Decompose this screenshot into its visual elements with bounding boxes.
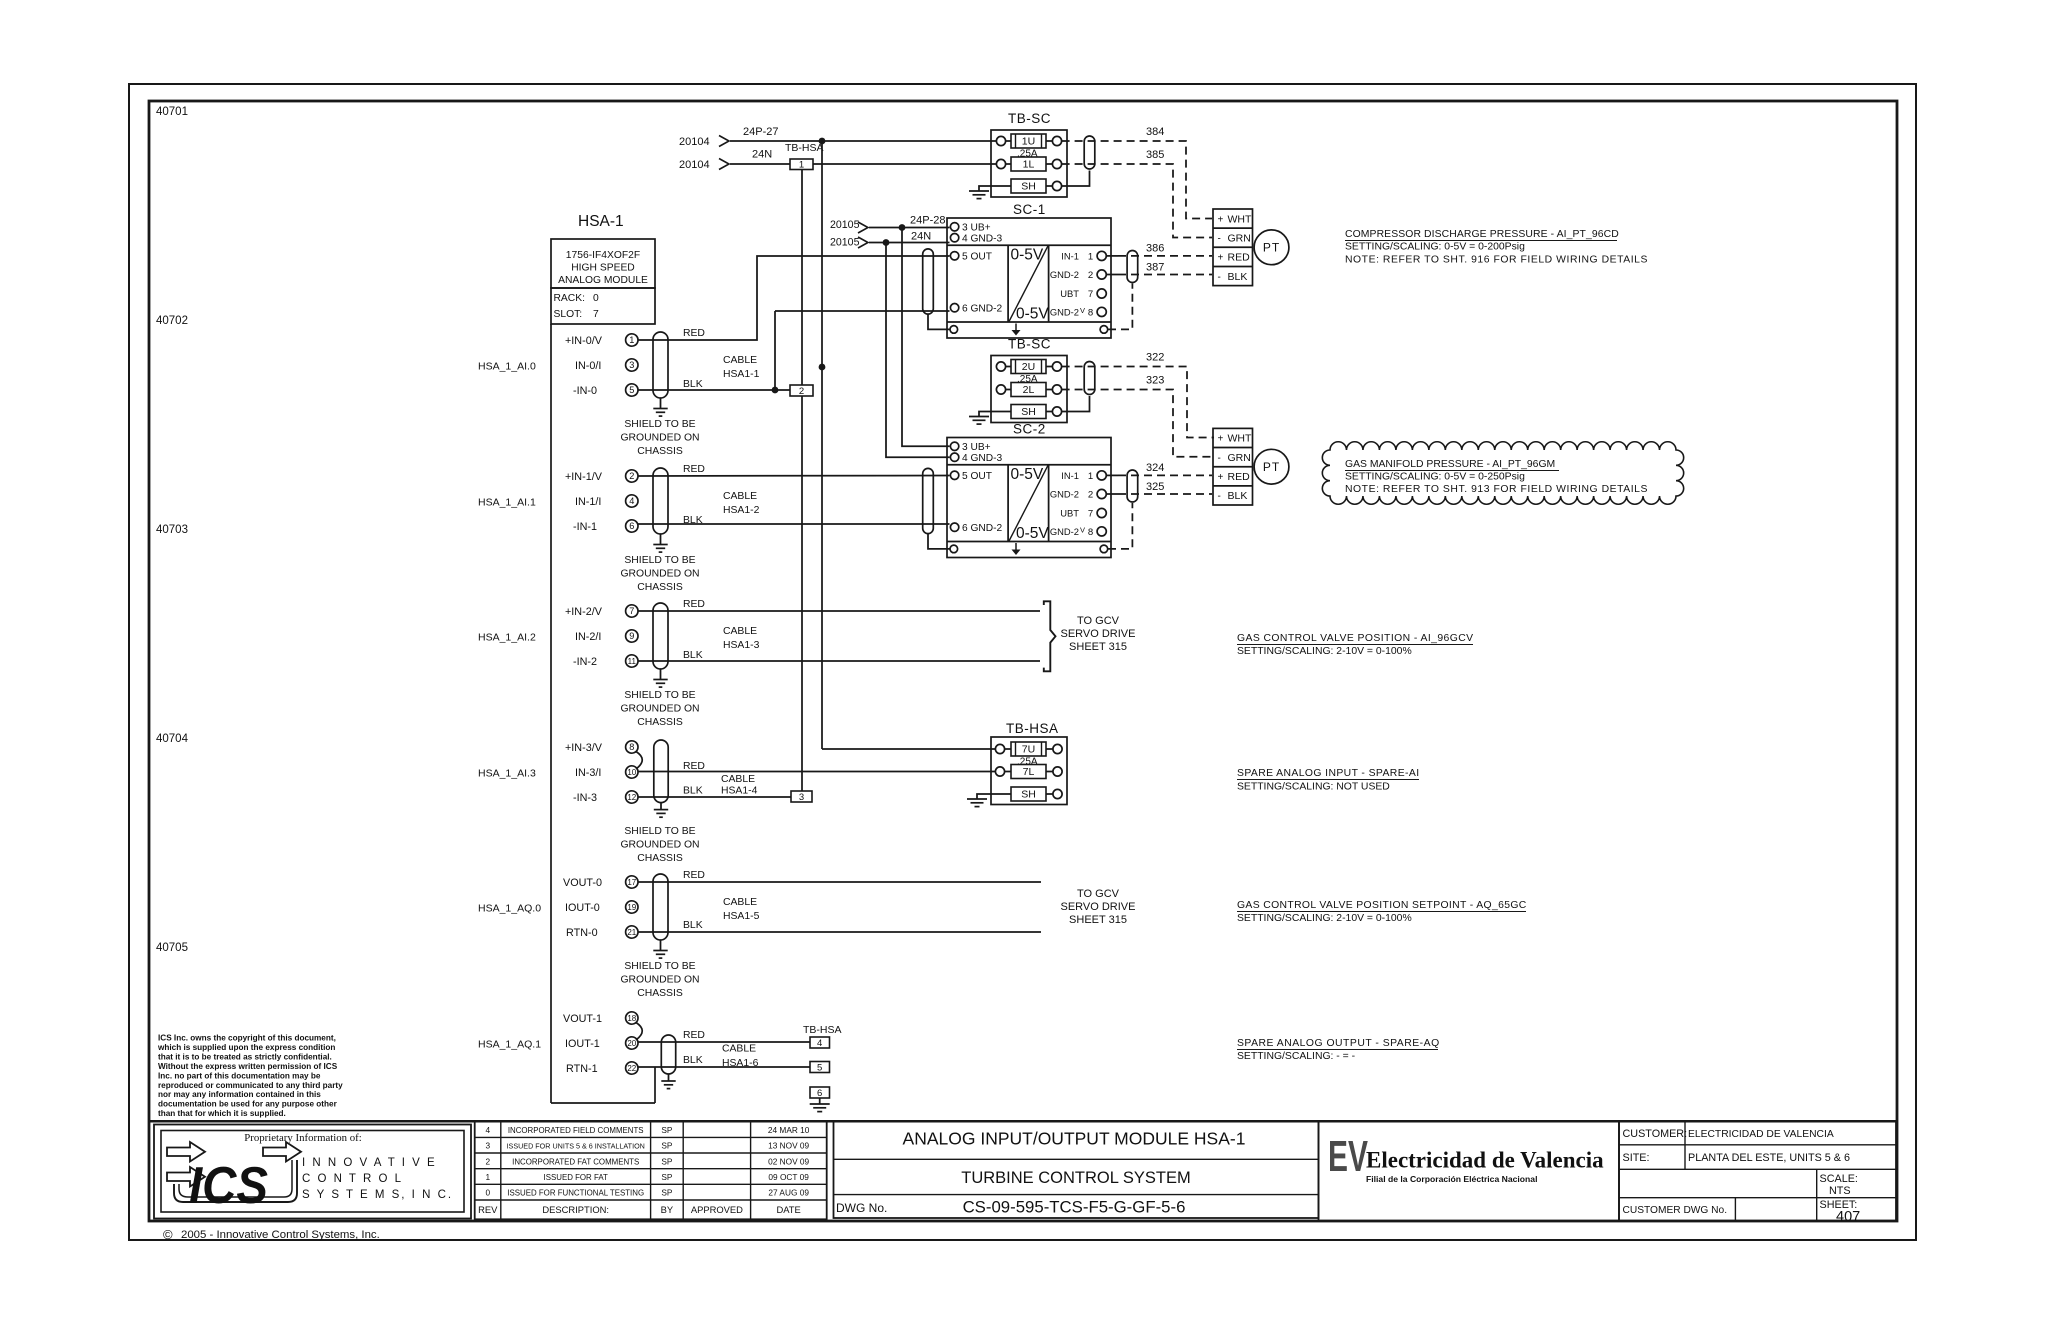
- TB-HSA 7L right terminal: [1053, 767, 1062, 776]
- pin 9 circle: [626, 630, 638, 642]
- svg-text:HSA_1_AQ.1: HSA_1_AQ.1: [478, 1039, 541, 1051]
- svg-text:UBT: UBT: [1060, 508, 1079, 519]
- svg-text:1: 1: [1088, 471, 1093, 482]
- pin 22 circle: [626, 1062, 638, 1074]
- svg-text:SERVO DRIVE: SERVO DRIVE: [1061, 628, 1136, 640]
- svg-text:ELECTRICIDAD DE VALENCIA: ELECTRICIDAD DE VALENCIA: [1688, 1129, 1834, 1140]
- arrow 20105 a: [858, 222, 868, 233]
- svg-text:CHASSIS: CHASSIS: [637, 582, 683, 593]
- svg-text:HSA-1: HSA-1: [578, 213, 624, 230]
- shield drain stem HSA1-6: [668, 1074, 670, 1081]
- svg-text:-: -: [1218, 272, 1221, 283]
- svg-text:reproduced or communicated to: reproduced or communicated to any third …: [158, 1081, 343, 1090]
- ICS logo arrow 1: [167, 1142, 205, 1162]
- svg-text:PLANTA DEL ESTE, UNITS 5: PLANTA DEL ESTE, UNITS 5 & 6: [1688, 1152, 1850, 1164]
- svg-text:TB-HSA: TB-HSA: [1006, 721, 1059, 736]
- svg-text:GROUNDED ON: GROUNDED ON: [620, 433, 699, 444]
- signal conditioner SC-1 pin 8 GND-2 terminal: [1097, 307, 1106, 316]
- customer vline label: [1684, 1121, 1686, 1169]
- svg-text:RED: RED: [683, 464, 705, 475]
- signal conditioner SC-2 ground arrow: [1015, 543, 1017, 551]
- svg-text:IN-3/I: IN-3/I: [575, 767, 601, 779]
- svg-text:documentation be used for any: documentation be used for any purpose ot…: [158, 1100, 338, 1109]
- pressure transmitter PT1 terminal block divider 3: [1213, 265, 1253, 267]
- shield drain stem HSA1-1: [660, 398, 662, 409]
- svg-text:CS-09-595-TCS-F5-G-GF-5-6: CS-09-595-TCS-F5-G-GF-5-6: [963, 1198, 1186, 1217]
- terminal block TB-SC upper fuse 1U link: [1006, 140, 1011, 142]
- border frame inner: [149, 101, 1897, 1221]
- wire 387 dashed: [1118, 274, 1212, 276]
- svg-text:7L: 7L: [1023, 766, 1035, 778]
- svg-text:COMPRESSOR DISCHARGE PRESSUR: COMPRESSOR DISCHARGE PRESSURE - AI_PT_96…: [1345, 229, 1619, 240]
- svg-text:5: 5: [817, 1063, 822, 1074]
- wire 24N top: [730, 163, 997, 165]
- terminal block TB-SC lower fuse 2U left terminal: [996, 362, 1005, 371]
- SC-1 shield return dashed: [1108, 284, 1132, 330]
- svg-text:GAS CONTROL VALVE POSITION: GAS CONTROL VALVE POSITION SETPOINT - AQ…: [1237, 900, 1527, 911]
- terminal block TB-SC upper 1L right terminal: [1052, 159, 1061, 168]
- TB-HSA SH right terminal: [1053, 789, 1062, 798]
- revision table hline 1: [475, 1136, 827, 1138]
- svg-text:BLK: BLK: [683, 379, 703, 390]
- signal conditioner SC-2 converter box: [1007, 465, 1009, 542]
- arrow 20104 a: [719, 136, 729, 147]
- svg-text:BLK: BLK: [683, 650, 703, 661]
- svg-text:40702: 40702: [156, 315, 188, 327]
- cable shield oval HSA1-2: [653, 468, 668, 534]
- signal conditioner SC-1 pin 7 UBT terminal: [1097, 289, 1106, 298]
- svg-text:RED: RED: [683, 1030, 705, 1041]
- TB-HSA fuse 7U link: [1005, 748, 1011, 750]
- pin 4 circle: [626, 495, 638, 507]
- svg-text:SHEET 315: SHEET 315: [1069, 641, 1127, 653]
- revision table hline 5: [475, 1199, 827, 1201]
- svg-text:SP: SP: [661, 1125, 673, 1135]
- wire +IN-0/V RED to SC-1 OUT: [638, 256, 950, 340]
- svg-text:GAS CONTROL VALVE POSITION: GAS CONTROL VALVE POSITION - AI_96GCV: [1237, 633, 1474, 644]
- svg-text:1: 1: [485, 1172, 490, 1182]
- signal conditioner SC-1 pin 4 GND-3 terminal: [950, 234, 958, 242]
- wire 325 dashed: [1118, 493, 1212, 495]
- svg-text:GROUNDED ON: GROUNDED ON: [620, 840, 699, 851]
- signal conditioner SC-2 pin 6 GND-2 terminal: [950, 523, 958, 531]
- module HSA-1 left edge: [550, 324, 552, 1103]
- svg-text:EV: EV: [1328, 1131, 1368, 1180]
- signal conditioner SC-1 shield terminal right: [1100, 326, 1108, 334]
- svg-text:24 MAR 10: 24 MAR 10: [768, 1125, 810, 1135]
- signal conditioner SC-1 converter box: [1007, 245, 1009, 322]
- svg-text:6 GND-2: 6 GND-2: [962, 303, 1003, 314]
- svg-text:IN-2/I: IN-2/I: [575, 631, 601, 643]
- customer table box: [1619, 1121, 1896, 1221]
- svg-text:CUSTOMER:: CUSTOMER:: [1623, 1128, 1688, 1140]
- terminal block TB-SC upper fuse 1U body: [1011, 134, 1046, 148]
- svg-text:IN-1/I: IN-1/I: [575, 496, 601, 508]
- svg-text:BY: BY: [661, 1204, 674, 1215]
- ICS logo arrow 2: [167, 1167, 205, 1187]
- note gcv setpoint underline: [1237, 911, 1526, 913]
- customer vline scale: [1816, 1169, 1818, 1221]
- signal conditioner SC-2 bottom strip divider: [947, 541, 1111, 543]
- pin 8 circle: [626, 741, 638, 753]
- svg-text:SH: SH: [1021, 181, 1036, 193]
- svg-text:18: 18: [627, 1014, 636, 1023]
- pressure transmitter PT2 terminal block PT transmitter: [1254, 449, 1289, 484]
- svg-text:NOTE: REFER TO SHT. 913 F: NOTE: REFER TO SHT. 913 FOR FIELD WIRING…: [1345, 484, 1648, 495]
- signal conditioner SC-1 ground arrow: [1015, 324, 1017, 332]
- shield ground HSA1-5: [653, 950, 667, 952]
- bus 24P-28 to SC-2: [902, 228, 950, 447]
- svg-text:4: 4: [629, 496, 634, 506]
- svg-text:SETTING/SCALING: 0-5V = 0-2: SETTING/SCALING: 0-5V = 0-250Psig: [1345, 472, 1525, 483]
- svg-text:ISSUED FOR FUNCTIONAL TESTI: ISSUED FOR FUNCTIONAL TESTING: [507, 1189, 644, 1198]
- TB-HSA terminal 7L body: [1011, 765, 1046, 779]
- terminal block TB-SC upper SH ground wire: [979, 186, 1011, 191]
- signal conditioner SC-1 pin 6 GND-2 terminal: [950, 304, 958, 312]
- TB-HSA fuse 7U left terminal: [995, 744, 1004, 753]
- signal conditioner SC-2 pin 7 UBT terminal: [1097, 508, 1106, 517]
- pin 10 circle: [626, 766, 638, 778]
- EV logo box: [1319, 1121, 1620, 1221]
- svg-text:RED: RED: [683, 761, 705, 772]
- svg-text:SHIELD TO BE: SHIELD TO BE: [624, 555, 695, 566]
- svg-text:SETTING/SCALING: 2-10V = 0-: SETTING/SCALING: 2-10V = 0-100%: [1237, 913, 1412, 924]
- svg-text:4: 4: [817, 1038, 822, 1049]
- svg-text:0-5V: 0-5V: [1016, 306, 1049, 323]
- terminal 6 ground: [810, 1103, 830, 1105]
- svg-text:IOUT-1: IOUT-1: [565, 1038, 600, 1050]
- pin 3 circle: [626, 359, 638, 371]
- SC-1 shield drain: [928, 314, 950, 329]
- svg-text:7: 7: [1088, 509, 1093, 520]
- terminal block TB-SC lower ground: [969, 416, 989, 418]
- svg-text:ANALOG MODULE: ANALOG MODULE: [558, 275, 648, 286]
- svg-text:22: 22: [627, 1064, 636, 1073]
- terminal block TB-SC upper SH right link: [1046, 185, 1052, 187]
- svg-text:SITE:: SITE:: [1623, 1152, 1650, 1164]
- svg-text:40704: 40704: [156, 733, 189, 745]
- svg-text:3: 3: [799, 792, 804, 803]
- svg-text:1L: 1L: [1023, 159, 1035, 171]
- terminal block TB-SC upper link 1L: [1006, 163, 1011, 165]
- svg-text:HSA1-3: HSA1-3: [723, 640, 760, 651]
- pin 21 circle: [626, 926, 638, 938]
- svg-text:24P-27: 24P-27: [743, 126, 778, 138]
- terminal block TB-SC lower SH right link: [1046, 411, 1052, 413]
- svg-text:7: 7: [629, 606, 634, 616]
- bus 24P vertical: [821, 141, 823, 749]
- signal conditioner SC-1 pin 2 GND-2 terminal: [1097, 270, 1106, 279]
- terminal TB-HSA 4 box: [810, 1037, 830, 1048]
- svg-text:Proprietary Information of:: Proprietary Information of:: [244, 1132, 362, 1144]
- revision table hline 2: [475, 1152, 827, 1154]
- svg-text:325: 325: [1146, 481, 1164, 493]
- ICS logo arrow 3: [263, 1142, 301, 1162]
- wire 24P-27: [730, 140, 997, 142]
- SC-2 shield return dashed: [1108, 503, 1132, 549]
- svg-text:24N: 24N: [752, 149, 772, 161]
- pressure transmitter PT2 terminal block box: [1213, 428, 1253, 505]
- svg-text:385: 385: [1146, 149, 1164, 161]
- svg-text:TB-HSA: TB-HSA: [785, 142, 824, 154]
- signal conditioner SC-2 pin 4 GND-3 terminal: [950, 453, 958, 461]
- revision table vline 3: [682, 1121, 684, 1219]
- signal conditioner SC-2 pin 1 IN-1 terminal: [1097, 471, 1106, 480]
- svg-text:I N N O V A T I V E: I N N O V A T I V E: [302, 1157, 437, 1169]
- svg-text:2: 2: [485, 1156, 490, 1166]
- pin 20 circle: [626, 1037, 638, 1049]
- svg-text:WHT: WHT: [1228, 433, 1252, 445]
- svg-text:Electricidad de Valencia: Electricidad de Valencia: [1366, 1148, 1604, 1173]
- shield drain stem HSA1-5: [660, 940, 662, 951]
- svg-text:GRN: GRN: [1228, 232, 1251, 244]
- terminal TB-HSA 3 box: [791, 791, 812, 802]
- signal conditioner SC-1 shield terminal left: [950, 326, 958, 334]
- svg-text:-: -: [1218, 491, 1221, 502]
- terminal block TB-SC upper fuse 1U right link: [1046, 140, 1052, 142]
- svg-text:-IN-0: -IN-0: [573, 385, 597, 397]
- svg-text:GND-2: GND-2: [1050, 306, 1079, 317]
- terminal block TB-SC lower box: [991, 356, 1067, 423]
- svg-text:4: 4: [485, 1125, 490, 1135]
- TB-HSA fuse 7U right link: [1046, 748, 1053, 750]
- shield drain stem HSA1-2: [660, 534, 662, 545]
- svg-text:SERVO DRIVE: SERVO DRIVE: [1061, 901, 1136, 913]
- signal conditioner SC-2 pin 8 GND-2 terminal: [1097, 527, 1106, 536]
- svg-text:6: 6: [629, 521, 634, 531]
- wire -IN-2 BLK to GCV: [638, 660, 1040, 662]
- svg-text:IN-1: IN-1: [1061, 250, 1079, 261]
- wire IN-3/I RED to TB-HSA 7L: [638, 771, 996, 773]
- svg-text:HSA_1_AI.2: HSA_1_AI.2: [478, 632, 536, 644]
- cable shield oval HSA1-5: [653, 874, 668, 940]
- svg-text:SC-2: SC-2: [1013, 422, 1046, 437]
- pin 2 circle: [626, 470, 638, 482]
- bus 24N to SC-2: [886, 243, 950, 458]
- terminal block TB-SC upper fuse 1U right terminal: [1052, 136, 1061, 145]
- svg-text:V: V: [1080, 306, 1085, 315]
- wire +IN-1/V RED to SC-2 OUT: [638, 475, 950, 478]
- terminal block TB-SC upper shield oval: [1084, 136, 1095, 169]
- svg-text:VOUT-0: VOUT-0: [563, 877, 602, 889]
- pin 1 circle: [626, 334, 638, 346]
- svg-text:2L: 2L: [1023, 384, 1035, 396]
- svg-text:SHIELD TO BE: SHIELD TO BE: [624, 826, 695, 837]
- svg-text:BLK: BLK: [1228, 271, 1248, 283]
- svg-text:20105: 20105: [830, 219, 860, 231]
- svg-text:PT: PT: [1263, 241, 1280, 255]
- svg-text:3 UB+: 3 UB+: [962, 223, 991, 234]
- svg-text:TO GCV: TO GCV: [1077, 888, 1120, 900]
- junction 24N branch: [883, 239, 890, 246]
- svg-text:RTN-0: RTN-0: [566, 927, 598, 939]
- svg-text:5 OUT: 5 OUT: [962, 252, 992, 263]
- ICS logo inner box: [161, 1131, 464, 1213]
- svg-text:2005 - Innovative Control: 2005 - Innovative Control Systems, Inc.: [181, 1229, 380, 1241]
- svg-text:DESCRIPTION:: DESCRIPTION:: [542, 1204, 609, 1215]
- svg-text:1: 1: [629, 335, 634, 345]
- wire -IN-3 BLK to TB-HSA 3: [638, 796, 791, 798]
- svg-text:CABLE: CABLE: [722, 1044, 756, 1055]
- svg-text:-IN-1: -IN-1: [573, 521, 597, 533]
- terminal TB-HSA 5 box: [810, 1062, 830, 1073]
- svg-text:NOTE: REFER TO SHT. 916 F: NOTE: REFER TO SHT. 916 FOR FIELD WIRING…: [1345, 255, 1648, 266]
- svg-text:GND-2: GND-2: [1050, 269, 1079, 280]
- TB-HSA 7L link: [1005, 771, 1011, 773]
- svg-text:SCALE:: SCALE:: [1820, 1173, 1858, 1185]
- svg-text:407: 407: [1836, 1209, 1860, 1225]
- svg-text:322: 322: [1146, 352, 1164, 364]
- svg-text:SP: SP: [661, 1141, 673, 1151]
- shield ground HSA1-2: [653, 544, 667, 546]
- svg-text:9: 9: [629, 631, 634, 641]
- svg-text:ICS: ICS: [189, 1157, 268, 1215]
- svg-text:nor may any information contai: nor may any information contained in thi…: [158, 1090, 321, 1099]
- svg-text:SETTING/SCALING: NOT USED: SETTING/SCALING: NOT USED: [1237, 782, 1390, 793]
- terminal block TB-SC upper box: [991, 130, 1067, 197]
- svg-text:RACK:: RACK:: [554, 293, 585, 304]
- svg-text:HSA1-5: HSA1-5: [723, 911, 760, 922]
- svg-text:-IN-2: -IN-2: [573, 656, 597, 668]
- svg-text:21: 21: [627, 928, 636, 937]
- revision table vline 4: [750, 1121, 752, 1219]
- pin 5 circle: [626, 384, 638, 396]
- TB-HSA ground: [967, 798, 987, 800]
- terminal block TB-SC upper SH body: [1011, 179, 1046, 193]
- wire 387 stub: [1106, 274, 1118, 276]
- wire 386 stub: [1106, 255, 1118, 257]
- junction 24P bus: [819, 138, 826, 145]
- svg-text:17: 17: [627, 878, 636, 887]
- svg-text:HSA1-1: HSA1-1: [723, 369, 760, 380]
- svg-text:SHIELD TO BE: SHIELD TO BE: [624, 961, 695, 972]
- svg-text:SH: SH: [1021, 789, 1036, 801]
- svg-text:REV: REV: [478, 1204, 498, 1215]
- svg-text:ISSUED FOR UNITS 5 & 6 I: ISSUED FOR UNITS 5 & 6 INSTALLATION: [507, 1142, 645, 1151]
- TB-HSA fuse 7U body: [1011, 742, 1046, 756]
- svg-text:INCORPORATED FAT COMMENTS: INCORPORATED FAT COMMENTS: [512, 1157, 639, 1166]
- svg-text:ANALOG INPUT/OUTPUT MODULE HSA: ANALOG INPUT/OUTPUT MODULE HSA-1: [903, 1129, 1246, 1149]
- pressure transmitter PT1 terminal block box: [1213, 209, 1253, 286]
- revision table box: [475, 1121, 827, 1219]
- customer vline dwg: [1734, 1198, 1736, 1221]
- svg-text:RED: RED: [1228, 471, 1251, 483]
- svg-text:SETTING/SCALING: - = -: SETTING/SCALING: - = -: [1237, 1051, 1355, 1062]
- shield ground HSA1-1: [653, 408, 667, 410]
- svg-text:+: +: [1218, 434, 1224, 445]
- svg-text:2U: 2U: [1022, 361, 1035, 373]
- revision table vline 1: [500, 1121, 502, 1219]
- svg-text:384: 384: [1146, 126, 1164, 138]
- svg-text:2: 2: [1088, 490, 1093, 501]
- wire -IN-0 BLK to TB-HSA 2: [638, 389, 790, 391]
- svg-text:that it is to be treated as st: that it is to be treated as strictly con…: [158, 1052, 332, 1061]
- svg-text:6 GND-2: 6 GND-2: [962, 523, 1003, 534]
- svg-text:BLK: BLK: [683, 786, 703, 797]
- svg-text:than that for which it is supp: than that for which it is supplied.: [158, 1109, 286, 1118]
- svg-text:TB-HSA: TB-HSA: [803, 1024, 842, 1036]
- signal conditioner SC-1 converter diagonal: [1009, 246, 1048, 322]
- wire 385 dashed: [1062, 164, 1212, 238]
- note gcv position underline: [1237, 644, 1473, 646]
- svg-text:CUSTOMER DWG No.: CUSTOMER DWG No.: [1623, 1205, 1728, 1216]
- svg-text:1: 1: [1088, 251, 1093, 262]
- svg-text:HSA_1_AI.3: HSA_1_AI.3: [478, 768, 536, 780]
- svg-text:SP: SP: [661, 1172, 673, 1182]
- svg-text:TB-SC: TB-SC: [1008, 111, 1051, 126]
- terminal block TB-SC lower SH drain: [1062, 396, 1090, 412]
- svg-text:SETTING/SCALING: 0-5V = 0-2: SETTING/SCALING: 0-5V = 0-200Psig: [1345, 242, 1525, 253]
- note compressor underline: [1345, 240, 1617, 242]
- svg-text:BLK: BLK: [1228, 490, 1248, 502]
- svg-text:HSA_1_AI.0: HSA_1_AI.0: [478, 361, 536, 373]
- terminal block TB-SC lower SH ground wire: [979, 412, 1011, 417]
- svg-text:27 AUG 09: 27 AUG 09: [768, 1188, 809, 1198]
- svg-text:7: 7: [593, 309, 599, 320]
- shield ground HSA1-6: [661, 1080, 675, 1082]
- svg-text:TO GCV: TO GCV: [1077, 615, 1120, 627]
- svg-text:CABLE: CABLE: [723, 626, 757, 637]
- svg-text:SETTING/SCALING: 2-10V = 0-: SETTING/SCALING: 2-10V = 0-100%: [1237, 646, 1412, 657]
- title divider 2: [834, 1194, 1319, 1196]
- revision table vline 2: [650, 1121, 652, 1219]
- signal conditioner SC-2 pin 3 UB+ terminal: [950, 442, 958, 450]
- customer hline 3: [1619, 1197, 1896, 1199]
- shield ground HSA1-3: [653, 679, 667, 681]
- svg-text:CHASSIS: CHASSIS: [637, 853, 683, 864]
- wire +IN-2/V RED to GCV: [638, 610, 1040, 612]
- svg-text:2: 2: [1088, 270, 1093, 281]
- module HSA-1 header box: [551, 239, 655, 288]
- terminal block TB-SC upper fuse 1U left terminal: [996, 136, 1005, 145]
- terminal block TB-SC lower fuse 2U right terminal: [1052, 362, 1061, 371]
- svg-text:8: 8: [629, 742, 634, 752]
- svg-text:5 OUT: 5 OUT: [962, 471, 992, 482]
- terminal 6 ground stem: [819, 1098, 821, 1104]
- wire RTN-1 BLK to TB-HSA 5: [638, 1066, 810, 1068]
- TB-HSA 7L right link: [1046, 771, 1053, 773]
- junction 24P-28 branch: [899, 224, 906, 231]
- svg-text:20105: 20105: [830, 237, 860, 249]
- svg-text:02 NOV 09: 02 NOV 09: [768, 1156, 809, 1166]
- SC-2 output shield oval: [1127, 470, 1138, 502]
- svg-text:CHASSIS: CHASSIS: [637, 446, 683, 457]
- svg-text:Filial de la Corporación Eléct: Filial de la Corporación Eléctrica Nacio…: [1366, 1174, 1537, 1184]
- svg-text:CHASSIS: CHASSIS: [637, 988, 683, 999]
- svg-text:SPARE ANALOG OUTPUT - SPAR: SPARE ANALOG OUTPUT - SPARE-AQ: [1237, 1038, 1440, 1049]
- svg-text:SP: SP: [661, 1188, 673, 1198]
- TB-HSA SH body: [1011, 787, 1046, 801]
- bus 24N vertical upper: [801, 170, 803, 386]
- signal conditioner SC-2 shield terminal left: [950, 545, 958, 553]
- svg-text:386: 386: [1146, 243, 1164, 255]
- svg-text:4 GND-3: 4 GND-3: [962, 453, 1003, 464]
- signal conditioner SC-2 pin 2 GND-2 terminal: [1097, 489, 1106, 498]
- svg-text:09 OCT 09: 09 OCT 09: [768, 1172, 809, 1182]
- svg-text:324: 324: [1146, 462, 1164, 474]
- terminal block TB-SC lower fuse 2U right link: [1046, 366, 1052, 368]
- svg-text:2: 2: [629, 471, 634, 481]
- wire 324 dashed: [1118, 474, 1212, 476]
- svg-text:+IN-1/V: +IN-1/V: [565, 471, 603, 483]
- svg-text:40703: 40703: [156, 524, 188, 536]
- svg-text:11: 11: [628, 657, 637, 666]
- svg-text:24P-28: 24P-28: [910, 215, 945, 227]
- wire -IN-1 BLK to SC-2 GND-2: [638, 523, 950, 525]
- customer hline 2: [1619, 1168, 1896, 1170]
- svg-text:10: 10: [627, 768, 636, 777]
- terminal block TB-SC lower SH body: [1011, 405, 1046, 419]
